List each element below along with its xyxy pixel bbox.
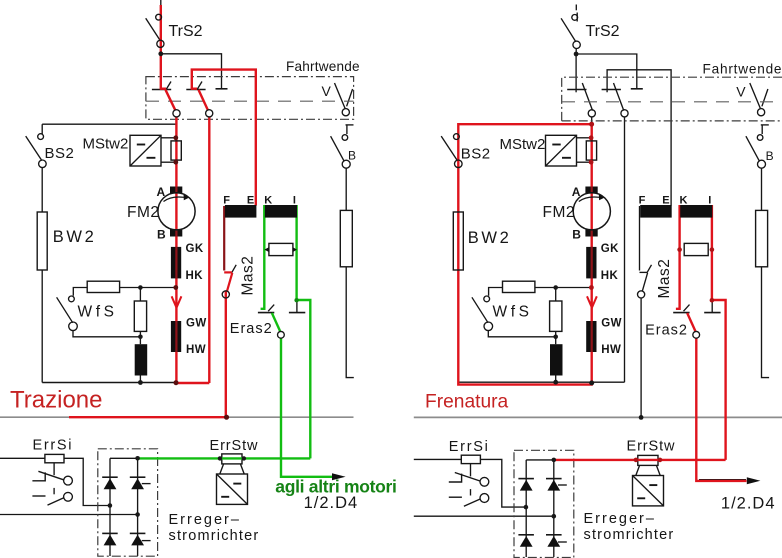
svg-text:TrS2: TrS2 <box>586 23 620 40</box>
svg-text:BW2: BW2 <box>53 228 97 246</box>
svg-text:F: F <box>639 195 646 207</box>
svg-text:Trazione: Trazione <box>10 387 102 414</box>
svg-text:1/2.D4: 1/2.D4 <box>304 494 359 512</box>
svg-text:HK: HK <box>601 270 619 282</box>
svg-text:B: B <box>766 149 774 163</box>
svg-text:ErrStw: ErrStw <box>627 439 676 455</box>
svg-text:E: E <box>662 195 669 207</box>
svg-text:Erreger–: Erreger– <box>169 512 241 528</box>
svg-text:Eras2: Eras2 <box>230 321 273 337</box>
svg-text:I: I <box>293 195 296 207</box>
svg-text:ErrSi: ErrSi <box>449 439 490 455</box>
svg-text:A: A <box>157 185 166 199</box>
svg-text:K: K <box>264 195 272 207</box>
svg-text:ErrStw: ErrStw <box>210 438 259 454</box>
svg-text:GK: GK <box>601 243 619 255</box>
svg-text:B: B <box>572 228 581 242</box>
svg-text:FM2: FM2 <box>543 204 576 221</box>
svg-text:B: B <box>348 149 356 163</box>
svg-text:A: A <box>572 185 581 199</box>
svg-text:MStw2: MStw2 <box>83 136 129 153</box>
svg-text:HW: HW <box>186 344 206 356</box>
svg-text:Fahrtwende: Fahrtwende <box>703 62 782 77</box>
svg-text:F: F <box>223 195 230 207</box>
svg-text:E: E <box>247 195 254 207</box>
svg-text:ErrSi: ErrSi <box>33 437 74 453</box>
svg-text:I: I <box>708 195 711 207</box>
svg-text:V: V <box>322 83 332 99</box>
svg-text:Eras2: Eras2 <box>645 323 688 339</box>
svg-text:TrS2: TrS2 <box>169 23 203 40</box>
svg-text:GW: GW <box>601 318 622 330</box>
svg-text:WfS: WfS <box>493 303 533 320</box>
svg-text:FM2: FM2 <box>127 204 160 221</box>
svg-text:stromrichter: stromrichter <box>169 528 260 544</box>
svg-text:stromrichter: stromrichter <box>584 527 675 543</box>
svg-text:GK: GK <box>186 243 204 255</box>
svg-text:B: B <box>157 228 166 242</box>
svg-text:HK: HK <box>186 270 204 282</box>
svg-text:Mas2: Mas2 <box>240 256 257 296</box>
svg-text:HW: HW <box>601 344 621 356</box>
svg-text:Fahrtwende: Fahrtwende <box>286 59 360 74</box>
svg-text:BS2: BS2 <box>461 145 491 162</box>
svg-text:GW: GW <box>186 318 207 330</box>
svg-text:MStw2: MStw2 <box>500 136 546 153</box>
svg-text:K: K <box>680 195 688 207</box>
svg-text:V: V <box>736 84 746 100</box>
svg-text:Erreger–: Erreger– <box>584 511 656 527</box>
svg-text:BS2: BS2 <box>45 145 75 162</box>
svg-text:WfS: WfS <box>78 303 118 320</box>
svg-text:BW2: BW2 <box>468 229 512 247</box>
svg-text:Mas2: Mas2 <box>656 259 673 299</box>
svg-text:1/2.D4: 1/2.D4 <box>721 494 776 512</box>
svg-text:Frenatura: Frenatura <box>425 391 509 412</box>
